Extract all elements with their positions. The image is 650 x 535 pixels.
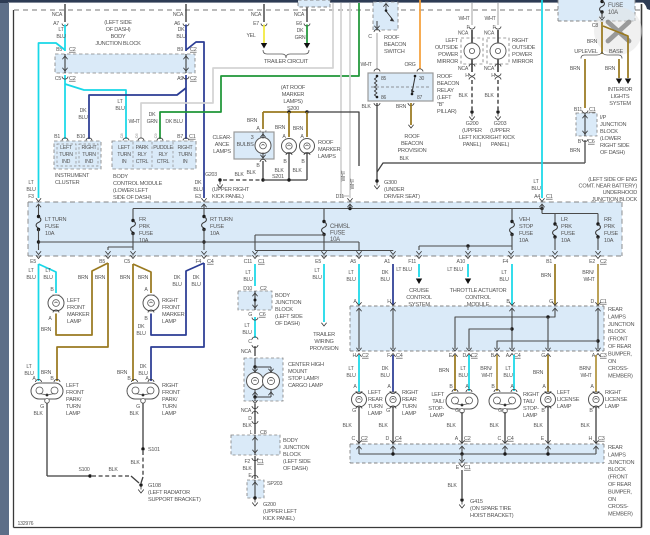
svg-text:BRN/: BRN/ [582, 270, 594, 276]
jb1 top arrows [356, 302, 361, 305]
wire WHT switch to relay [376, 33, 378, 70]
svg-text:CROSS-: CROSS- [608, 366, 629, 372]
svg-text:G200: G200 [466, 121, 479, 127]
svg-text:10A: 10A [561, 238, 571, 244]
svg-text:BLOCK: BLOCK [283, 452, 301, 458]
wire WHT to PARK RLY CTRL [141, 3, 333, 139]
svg-text:E5: E5 [30, 259, 36, 265]
left mirror WHT stub [471, 3, 473, 25]
svg-text:ON: ON [608, 359, 616, 365]
svg-text:LEFT: LEFT [445, 38, 459, 44]
svg-text:KICK PANEL): KICK PANEL) [263, 516, 295, 522]
wire BRN B1 to rear jb [554, 264, 556, 305]
lr prk fuse [554, 223, 556, 226]
svg-text:FUSE: FUSE [519, 231, 533, 237]
svg-text:DK: DK [80, 108, 87, 114]
svg-text:BLK: BLK [458, 93, 468, 99]
right front marker lamp [143, 295, 159, 311]
rt turn fuse [203, 204, 205, 217]
splice S201 [261, 178, 264, 181]
body junction block 3 box [231, 435, 280, 455]
wire BLK bus to G300 [377, 163, 585, 172]
svg-text:RIGHT: RIGHT [605, 390, 622, 396]
wire LT BLU A10 throttle [467, 264, 469, 277]
svg-text:B11: B11 [574, 107, 582, 113]
wire BLK left license B [547, 407, 549, 443]
svg-text:RIGHT: RIGHT [523, 392, 540, 398]
svg-text:BRN/: BRN/ [480, 366, 492, 372]
svg-text:CLUSTER: CLUSTER [55, 180, 80, 186]
svg-text:BLK: BLK [234, 172, 244, 178]
ground G203 left [218, 178, 221, 181]
svg-text:DK: DK [382, 270, 389, 276]
svg-text:A1: A1 [384, 259, 390, 265]
svg-text:C: C [368, 34, 372, 40]
svg-text:BLOCK: BLOCK [608, 467, 626, 473]
svg-text:LAMP: LAMP [557, 404, 572, 410]
svg-text:E6: E6 [296, 21, 302, 27]
svg-text:RELAY: RELAY [437, 88, 454, 94]
svg-text:ROOF: ROOF [318, 140, 334, 146]
wire through bjb2 [254, 291, 256, 310]
svg-text:BLU: BLU [380, 373, 390, 379]
svg-text:WHT: WHT [484, 16, 496, 22]
svg-text:TURN: TURN [82, 152, 96, 158]
svg-text:BLU: BLU [499, 277, 509, 283]
fr prk fuse [132, 209, 134, 222]
svg-text:TRAILER: TRAILER [313, 332, 335, 338]
svg-text:BEACON: BEACON [384, 42, 406, 48]
wire BRN/WHT to right tail B [496, 355, 498, 391]
wire BRN to right roof marker [306, 112, 308, 137]
svg-text:(UPPER RIGHT: (UPPER RIGHT [212, 187, 250, 193]
svg-text:BLK: BLK [129, 411, 139, 417]
svg-text:E3: E3 [195, 194, 201, 200]
svg-text:SP203: SP203 [267, 481, 282, 487]
svg-text:FUSE: FUSE [139, 231, 153, 237]
svg-text:REAR: REAR [368, 397, 383, 403]
svg-text:STOP: STOP [519, 224, 534, 230]
wire BRN to left tail B [454, 355, 456, 391]
svg-text:BODY: BODY [275, 293, 290, 299]
wire LT BLU to right tail A [513, 355, 515, 391]
svg-text:LT TURN: LT TURN [45, 217, 66, 223]
svg-text:STOP-: STOP- [428, 406, 444, 412]
svg-text:G: G [40, 404, 44, 410]
svg-text:ROOF: ROOF [437, 74, 453, 80]
wire BLK dashed right mirror [497, 80, 499, 110]
svg-text:LT BLU: LT BLU [396, 267, 412, 273]
wire BRN to left roof marker [288, 112, 290, 137]
wire LT BLU to left rear turn [358, 355, 360, 392]
band feed bus [133, 208, 542, 210]
svg-text:(FRONT: (FRONT [608, 475, 628, 481]
svg-text:BRN/: BRN/ [579, 366, 591, 372]
svg-text:S200: S200 [287, 106, 299, 112]
svg-text:G200: G200 [263, 502, 276, 508]
wire BLK dashed S100 to G108 [92, 475, 131, 477]
svg-text:FRONT: FRONT [162, 390, 181, 396]
svg-text:SUPPORT BRACKET): SUPPORT BRACKET) [148, 497, 201, 503]
svg-text:RLY: RLY [138, 152, 148, 158]
svg-text:BLK: BLK [108, 467, 118, 473]
svg-text:F11: F11 [408, 259, 416, 265]
svg-text:(LEFT SIDE OF ENG: (LEFT SIDE OF ENG [588, 177, 637, 183]
svg-text:132976: 132976 [18, 521, 34, 527]
wire LT BLU E5 trailer provision [323, 264, 325, 322]
svg-text:(LEFT RADIATOR: (LEFT RADIATOR [148, 490, 190, 496]
splice S200 bus [263, 111, 307, 113]
wire BRN/WHT E2 to rear jb [597, 264, 599, 305]
svg-text:LIGHTS: LIGHTS [611, 94, 630, 100]
roof beacon switch box [373, 2, 398, 30]
svg-text:LR: LR [561, 217, 568, 223]
svg-text:BLU: BLU [26, 187, 36, 193]
svg-text:DK BLU: DK BLU [165, 119, 183, 125]
svg-text:C: C [498, 436, 502, 442]
svg-text:F4: F4 [502, 259, 508, 265]
svg-text:(LEFT SIDE: (LEFT SIDE [275, 314, 303, 320]
svg-text:C5: C5 [124, 259, 130, 265]
svg-text:BLU: BLU [78, 115, 88, 121]
svg-text:REAR: REAR [608, 445, 623, 451]
wire BRN left marker to B5 [56, 263, 108, 335]
pin arcs BCM [123, 138, 129, 141]
wire BRN base to interior lights [618, 59, 620, 78]
svg-text:(LEFT: (LEFT [437, 95, 452, 101]
svg-text:BRN: BRN [541, 273, 552, 279]
left front park/turn lamp [31, 383, 63, 399]
svg-text:LAMP: LAMP [605, 404, 620, 410]
svg-text:B1: B1 [54, 134, 60, 140]
svg-text:PANEL): PANEL) [491, 142, 510, 148]
wire through left mirror [471, 30, 473, 43]
right mirror motor [490, 43, 506, 59]
lt turn fuse [38, 204, 40, 217]
splice S101 [141, 447, 144, 450]
rear lamps junction block 2 box [350, 444, 604, 463]
svg-text:BODY: BODY [113, 174, 128, 180]
wire LT BLU C11 to D10 [254, 264, 256, 286]
svg-text:DK: DK [174, 275, 181, 281]
svg-text:LAMP: LAMP [523, 413, 538, 419]
svg-text:F: F [387, 353, 390, 359]
chmsl bulb right [263, 373, 280, 390]
svg-text:BLOCK: BLOCK [600, 129, 618, 135]
svg-text:RIGHT: RIGHT [402, 390, 419, 396]
wire BLK dashed S101 to G108 [142, 451, 144, 477]
svg-text:BLK: BLK [33, 411, 43, 417]
svg-text:S101: S101 [148, 447, 160, 453]
svg-text:BRN: BRN [95, 275, 106, 281]
connector E6 stub [306, 4, 308, 22]
wire BRN to left license [547, 355, 549, 392]
svg-text:DK: DK [195, 180, 202, 186]
svg-text:3: 3 [251, 135, 254, 141]
svg-text:MEMBER): MEMBER) [608, 374, 633, 380]
svg-text:POWER: POWER [512, 52, 532, 58]
svg-text:JUNCTION: JUNCTION [608, 460, 634, 466]
svg-text:PRK: PRK [561, 224, 572, 230]
svg-text:BLU: BLU [503, 373, 513, 379]
svg-text:LAMP: LAMP [430, 413, 445, 419]
svg-text:NCA: NCA [173, 12, 184, 18]
svg-text:BRN: BRN [41, 327, 52, 333]
svg-text:PROVISION: PROVISION [310, 346, 339, 352]
svg-text:BLU: BLU [312, 275, 322, 281]
svg-text:BLK: BLK [361, 104, 371, 110]
svg-text:NCA: NCA [52, 12, 63, 18]
viewer top band [0, 0, 650, 3]
svg-text:WHT: WHT [341, 170, 347, 181]
svg-text:JUNCTION: JUNCTION [283, 445, 309, 451]
svg-text:(LOWER: (LOWER [600, 136, 621, 142]
svg-text:BLK: BLK [446, 423, 456, 429]
svg-text:OF DASH): OF DASH) [283, 466, 308, 472]
svg-text:HOIST BRACKET): HOIST BRACKET) [470, 513, 514, 519]
diagram border left [13, 10, 15, 528]
wire LT BLU C5 to B1 [64, 75, 66, 139]
svg-text:NCA: NCA [241, 408, 252, 414]
right license lamp [589, 392, 604, 407]
svg-text:IN: IN [122, 159, 127, 165]
wire LT BLU E5 to left park A [38, 264, 40, 381]
svg-text:BLK: BLK [447, 483, 457, 489]
svg-text:G: G [386, 408, 390, 414]
svg-text:10A: 10A [139, 238, 149, 244]
svg-text:BLOCK: BLOCK [275, 307, 293, 313]
relay dashed midline [371, 86, 430, 88]
chmsl internal top [254, 358, 256, 366]
jb1 net D [597, 308, 599, 349]
svg-text:30: 30 [419, 76, 425, 82]
wire BLK right rear turn G [392, 407, 394, 443]
svg-text:H: H [353, 353, 357, 359]
band top connector D11 [347, 198, 352, 201]
svg-text:ROOF: ROOF [404, 134, 420, 140]
svg-text:B9: B9 [177, 47, 183, 53]
roof beacon relay box [368, 73, 433, 101]
sp203 box [247, 480, 264, 498]
svg-text:DK: DK [297, 28, 304, 34]
svg-text:BRN: BRN [275, 125, 286, 131]
wire through sp203 [254, 480, 256, 497]
svg-text:BRN: BRN [293, 126, 304, 132]
wire BLK S200 to junction [307, 112, 359, 166]
svg-text:OF DASH): OF DASH) [275, 321, 300, 327]
right roof marker lamp [300, 139, 315, 154]
left rear turn lamp [352, 392, 367, 407]
left mirror motor [464, 43, 480, 59]
wire LT BLU F4 to rear jb [511, 264, 513, 305]
svg-text:OUTSIDE: OUTSIDE [435, 45, 459, 51]
svg-text:A9: A9 [177, 76, 183, 82]
svg-text:LEFT: LEFT [67, 298, 81, 304]
chmsl bulb left [247, 373, 264, 390]
svg-text:BLK: BLK [378, 423, 388, 429]
svg-text:STOP LAMP/: STOP LAMP/ [288, 376, 320, 382]
svg-text:CONTROL MODULE: CONTROL MODULE [113, 181, 163, 187]
left roof marker lamp [282, 139, 297, 154]
svg-text:F3: F3 [28, 194, 34, 200]
svg-text:FUSE: FUSE [210, 224, 224, 230]
svg-text:C: C [248, 339, 252, 345]
svg-text:E2: E2 [589, 259, 595, 265]
svg-text:H: H [589, 436, 593, 442]
svg-text:JUNCTION BLOCK: JUNCTION BLOCK [592, 197, 638, 203]
diagram border right [641, 4, 643, 528]
svg-text:PILLAR): PILLAR) [437, 109, 457, 115]
svg-text:BRN: BRN [120, 275, 131, 281]
svg-text:G: G [549, 299, 553, 305]
wire DK BLU A1 to rear jb [392, 264, 394, 305]
svg-text:PARK/: PARK/ [66, 397, 82, 403]
svg-text:WHT: WHT [360, 62, 372, 68]
left tail stop lamp [446, 393, 478, 409]
wire BLK bjb3 to sp203 [254, 456, 256, 479]
svg-text:NCA: NCA [484, 66, 495, 72]
ground G415 [460, 498, 463, 501]
svg-text:LAMP: LAMP [162, 411, 177, 417]
svg-text:WHT: WHT [580, 373, 592, 379]
svg-text:LAMP: LAMP [162, 319, 177, 325]
ground G200 mirror [470, 110, 473, 113]
svg-text:RIGHT: RIGHT [178, 145, 194, 151]
veh stop fuse [511, 209, 513, 223]
svg-text:A5: A5 [350, 259, 356, 265]
svg-text:CARGO LAMP: CARGO LAMP [288, 383, 323, 389]
svg-text:F2: F2 [244, 459, 250, 465]
splice S100 [88, 474, 91, 477]
svg-text:WHT: WHT [350, 178, 356, 189]
svg-text:REAR: REAR [402, 397, 417, 403]
wire BLK chmsl to bjb3 [254, 404, 256, 434]
svg-text:WHT: WHT [481, 373, 493, 379]
svg-text:BLU: BLU [380, 277, 390, 283]
svg-text:BODY: BODY [111, 34, 126, 40]
svg-text:BLK: BLK [292, 168, 302, 174]
clearance lamps 3 bulbs box [234, 132, 274, 159]
svg-text:NCA: NCA [294, 12, 305, 18]
band top connector E3 [201, 198, 206, 201]
svg-text:WHT: WHT [583, 277, 595, 283]
svg-text:IND: IND [62, 159, 71, 165]
svg-text:H: H [387, 299, 391, 305]
svg-text:ORG: ORG [404, 62, 415, 68]
svg-text:TURN: TURN [59, 152, 73, 158]
svg-text:LEFT: LEFT [66, 383, 80, 389]
svg-text:LAMPS: LAMPS [318, 154, 336, 160]
svg-text:CTRL: CTRL [136, 159, 149, 165]
wire BRN branch to right marker [133, 264, 151, 293]
wire DK BLU right marker to F4 [151, 263, 204, 335]
svg-text:LICENSE: LICENSE [605, 397, 628, 403]
wire LT BLU branch to left marker [39, 264, 57, 293]
svg-text:BLU: BLU [172, 282, 182, 288]
svg-text:INTERIOR: INTERIOR [608, 87, 633, 93]
svg-text:G203: G203 [494, 121, 507, 127]
svg-text:TURN: TURN [162, 404, 177, 410]
svg-text:MARKER: MARKER [162, 312, 185, 318]
svg-text:LEFT: LEFT [118, 145, 131, 151]
svg-text:RLY: RLY [159, 152, 169, 158]
svg-text:BRN: BRN [533, 370, 544, 376]
svg-text:SWITCH: SWITCH [384, 49, 405, 55]
svg-text:FUSE: FUSE [330, 231, 345, 237]
svg-text:COMT. NEAR BATTERY): COMT. NEAR BATTERY) [579, 184, 638, 190]
svg-text:LAMP: LAMP [402, 411, 417, 417]
jb1 wire H to FC4 [392, 308, 394, 349]
svg-text:BRN: BRN [570, 66, 581, 72]
jb2 top arrows [356, 440, 361, 443]
svg-text:LEFT: LEFT [431, 392, 445, 398]
svg-text:B7: B7 [177, 134, 183, 140]
wire BRN B5 to left park B [57, 263, 108, 381]
svg-text:FUSE: FUSE [608, 3, 623, 9]
wire BRN into bulbs box [262, 112, 264, 129]
svg-text:LAMP: LAMP [368, 411, 383, 417]
wire through block B9-A9 [185, 54, 187, 73]
wire BLK relay 86 to G300 [376, 103, 378, 180]
svg-text:CROSS-: CROSS- [608, 504, 629, 510]
svg-text:B10: B10 [77, 134, 86, 140]
svg-text:BLU: BLU [193, 187, 203, 193]
wire BLK left rear turn G [358, 407, 360, 443]
svg-text:BLK: BLK [484, 93, 494, 99]
ground G300 [375, 179, 378, 182]
svg-text:LT BLU: LT BLU [447, 267, 463, 273]
diagram border top dashed [14, 9, 641, 11]
svg-text:LEFT KICK: LEFT KICK [459, 135, 485, 141]
svg-text:BLU: BLU [458, 373, 468, 379]
wire BRN uplevel to B11 [584, 59, 586, 108]
wire through block B5-C5 [64, 54, 66, 73]
svg-text:G: G [352, 408, 356, 414]
svg-text:UPLEVEL: UPLEVEL [574, 49, 598, 55]
svg-text:G300: G300 [384, 180, 397, 186]
svg-text:CONTROL: CONTROL [465, 295, 491, 301]
wire BLK dashed left mirror [471, 80, 473, 110]
svg-text:E5: E5 [315, 259, 321, 265]
wire LT BLU to left tail A [468, 355, 470, 391]
body junction block 2 box [238, 291, 272, 310]
wire ORG to relay [419, 0, 421, 69]
svg-text:86: 86 [381, 95, 387, 101]
wire BLK right tail G [504, 412, 506, 443]
relay coil [374, 77, 377, 97]
svg-text:PRK: PRK [604, 224, 615, 230]
svg-text:PARK: PARK [136, 145, 150, 151]
wire BLK right park G [142, 403, 144, 449]
svg-text:JUNCTION BLOCK: JUNCTION BLOCK [95, 41, 141, 47]
svg-text:NCA: NCA [484, 31, 495, 37]
right tail stop lamp [489, 393, 521, 409]
svg-text:E7: E7 [253, 21, 259, 27]
svg-text:(UPPER: (UPPER [462, 128, 482, 134]
svg-text:G: G [498, 408, 502, 414]
svg-text:10A: 10A [604, 238, 614, 244]
fr prk split to B5 C5 [108, 246, 133, 248]
svg-text:REAR: REAR [608, 307, 623, 313]
wire BLK left tail G [461, 412, 463, 443]
wire LT BLU B5 branch to F3 [39, 43, 66, 198]
svg-text:BLK: BLK [399, 156, 409, 162]
svg-text:G: G [248, 312, 252, 318]
svg-text:TURN: TURN [368, 404, 383, 410]
svg-text:10A: 10A [608, 10, 618, 16]
svg-text:ROOF: ROOF [384, 35, 400, 41]
svg-text:TAIL/: TAIL/ [523, 399, 535, 405]
